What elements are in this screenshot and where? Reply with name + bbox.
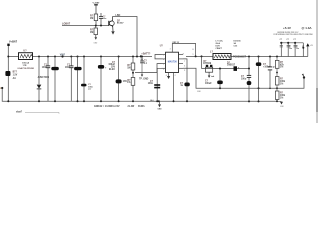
svg-text:C?: C?: [293, 39, 295, 41]
svg-text:FZT849: FZT849: [203, 62, 212, 65]
svg-text:0.9A POLYFUSE: 0.9A POLYFUSE: [18, 67, 35, 70]
svg-text:1%: 1%: [280, 67, 283, 69]
svg-text:1.5V: 1.5V: [13, 75, 18, 77]
svg-text:1: 1: [163, 55, 164, 57]
svg-text:C?: C?: [287, 39, 289, 41]
svg-text:10u: 10u: [296, 48, 299, 50]
svg-text:1%: 1%: [280, 83, 283, 85]
svg-text:8: 8: [183, 54, 184, 56]
power flag V+BAT (top): [94, 5, 98, 14]
svg-text:1: 1: [193, 54, 194, 56]
fuse F1 box with zigzag: [19, 53, 33, 60]
wire main rail battery side y56.5: [8, 56, 18, 58]
resistor divider x133 lower: [131, 78, 135, 86]
IC pins right: [179, 54, 183, 56]
svg-text:BC547: BC547: [117, 22, 124, 25]
svg-text:100n: 100n: [42, 67, 48, 69]
svg-text:1M: 1M: [90, 17, 93, 20]
capacitor electrolytic pill x77.5: [74, 67, 82, 70]
resistor divider x133 upper: [131, 63, 135, 70]
ground IC bottom-left pin: [167, 76, 170, 79]
svg-text:BT?: BT?: [13, 72, 18, 74]
svg-text:GND/J2 = 10.0W/11.7AV: GND/J2 = 10.0W/11.7AV: [94, 105, 120, 108]
svg-text:VIN?: VIN?: [60, 54, 66, 57]
output divider R x277 top: [275, 60, 279, 68]
text gnd current note bottom: [94, 105, 145, 108]
svg-text:1N5817: 1N5817: [227, 65, 236, 67]
svg-text:LBO: LBO: [116, 15, 121, 17]
capacitor electrolytic pill x258.5: [256, 62, 261, 66]
ground flag below rail x159.5: [159, 101, 161, 104]
wire verticals battery-side caps: [39, 57, 133, 102]
wire pin2 right down: [183, 59, 187, 101]
svg-text:1M: 1M: [90, 31, 93, 34]
svg-text:1%: 1%: [280, 98, 283, 100]
inductor L1 zigzag below: [214, 55, 230, 58]
svg-text:V+BAT: V+BAT: [93, 2, 101, 5]
svg-text:U?: U?: [23, 50, 27, 53]
node gnd stub left: [1, 87, 3, 89]
capacitor gnd x156: [154, 84, 160, 86]
IC pins left: [162, 54, 166, 56]
transistor Q1 low-batt (circle at 111.8,23.3): [109, 17, 114, 32]
svg-text:FOR NORMAL USE TIE A SELN PIN: FOR NORMAL USE TIE A SELN PIN TO GND PAD: [274, 33, 314, 36]
svg-text:PoWh: PoWh: [138, 106, 145, 108]
IC pins bottom: [168, 73, 170, 77]
svg-text:vbat?: vbat?: [16, 110, 23, 113]
svg-text:JUNCTION: JUNCTION: [38, 77, 50, 79]
inductor L1 box: [213, 54, 231, 60]
capacitor small pill x84 low: [81, 84, 87, 87]
svg-text:7: 7: [184, 61, 185, 63]
capacitor electrolytic x249 (plates + pill): [247, 74, 251, 76]
junction dots on main +BATT rail: [7, 25, 143, 58]
capacitor ceramic x270: [268, 66, 272, 68]
svg-text:100uF: 100uF: [205, 83, 212, 85]
svg-text:17R: 17R: [23, 65, 27, 67]
capacitor electrolytic x118.6 w/ 4-line label: [118, 57, 120, 102]
svg-text:MAX756: MAX756: [168, 60, 178, 63]
capacitor ceramic x71.3: [69, 65, 73, 67]
svg-text:C?: C?: [280, 39, 282, 41]
wire LX switch node to diode path: [202, 56, 271, 101]
capacitor pill x220: [217, 81, 223, 85]
capacitor ceramic x48: [46, 65, 50, 67]
svg-text:AA: AA: [13, 77, 17, 80]
IC pin number tiny marks: [163, 54, 185, 72]
svg-text:TP_GND: TP_GND: [139, 78, 149, 80]
output divider R x277 lower: [275, 91, 279, 99]
diode D1 1N5817: [234, 66, 238, 71]
diode D junction at x39: [37, 85, 42, 89]
transistor Q2 switch (205.5-213, 64.5-75.5): [206, 65, 213, 78]
svg-text:0.03: 0.03: [234, 46, 238, 48]
capacitor electrolytic pill x55: [51, 67, 59, 70]
svg-text:cer: cer: [88, 89, 91, 91]
resistor R divider top (x96 y13.5-21.5): [94, 14, 98, 26]
wire rail into pin2: [155, 56, 162, 59]
right border: [316, 0, 318, 123]
IC pin top: [172, 44, 195, 57]
text block above inductor: [216, 41, 241, 51]
wire feedback rail y88.3: [183, 68, 304, 88]
svg-text:+5.4V: +5.4V: [283, 26, 291, 30]
wire pin1 loop to top pin: [155, 55, 162, 57]
wire rail right of IC y56.5: [186, 56, 213, 58]
svg-text:100n: 100n: [148, 83, 154, 85]
capacitor at x101 upper: [99, 13, 103, 26]
svg-text:J?: J?: [302, 46, 304, 48]
wire LBO top y16.5: [113, 17, 138, 57]
battery BT1: [5, 71, 10, 76]
svg-text:V+BAT: V+BAT: [9, 41, 18, 44]
svg-text:3: 3: [163, 64, 164, 66]
svg-text:5: 5: [184, 70, 185, 72]
junction dots output rail and ground rails: [38, 55, 305, 102]
svg-text:2: 2: [175, 75, 176, 77]
resistor R lower divider x95.8: [94, 28, 98, 35]
wire rail y25.5 (LBI divider): [62, 25, 109, 27]
wire ground rail bottom: [2, 88, 277, 101]
svg-text:GND: GND: [158, 109, 163, 111]
svg-text:6: 6: [184, 65, 185, 67]
wire V+BAT vertical: [7, 46, 9, 71]
+5V power flag: [306, 43, 309, 46]
net flag at 304,77.5: [302, 74, 304, 77]
svg-text:100u: 100u: [241, 78, 247, 80]
svg-text:@ 1.3A: @ 1.3A: [302, 26, 313, 30]
svg-text:PCD2098CT: PCD2098CT: [233, 57, 247, 59]
svg-text:3: 3: [170, 48, 171, 50]
svg-text:ELEC: ELEC: [109, 69, 115, 71]
output top caps x283,292,301: [281, 43, 308, 57]
svg-text:10u: 10u: [289, 48, 292, 50]
capacitor electrolytic x186.5: [184, 83, 189, 87]
IC U1 MAX756: [166, 52, 179, 72]
wire pin4 left down to gnd cap: [157, 68, 161, 101]
wire divider mid to IC pin3: [135, 64, 162, 73]
svg-text:(th): (th): [150, 99, 154, 102]
svg-text:1%: 1%: [127, 82, 130, 84]
svg-text:+BATT?: +BATT?: [141, 53, 151, 56]
capacitor x142 to gnd arrow: [141, 57, 143, 61]
svg-text:100mA: 100mA: [22, 61, 29, 64]
svg-text:CRAFT: CRAFT: [216, 47, 223, 50]
svg-text:1M: 1M: [127, 67, 130, 69]
svg-text:8: 8: [193, 49, 194, 51]
capacitor electrolytic pill x101: [98, 65, 104, 69]
svg-text:2: 2: [163, 59, 164, 61]
svg-text:100n: 100n: [65, 67, 71, 69]
output divider R x277 middle: [275, 77, 279, 85]
svg-text:21.4W: 21.4W: [128, 105, 135, 108]
svg-text:LOBAT: LOBAT: [62, 23, 71, 26]
